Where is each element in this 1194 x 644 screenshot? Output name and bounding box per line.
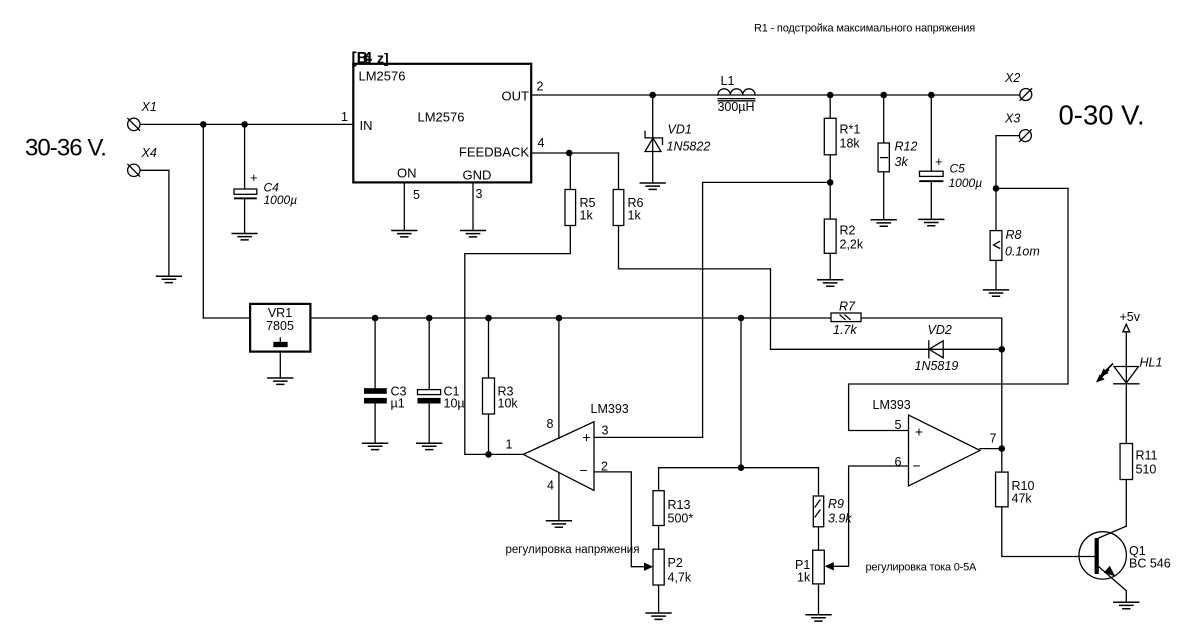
- resistor R13: [653, 491, 664, 526]
- wire comparator U1 pin 4 to ground: [558, 473, 560, 521]
- junction node 3: [649, 92, 656, 99]
- svg-text:P2: P2: [668, 556, 683, 570]
- wire R12 top: [883, 95, 885, 143]
- label LM2576 footprint tag [B4z]: [352, 50, 389, 67]
- svg-text:LM2576: LM2576: [418, 110, 465, 125]
- LED HL1: [1096, 364, 1139, 384]
- svg-text:LM2576: LM2576: [359, 69, 406, 84]
- svg-text:4,7k: 4,7k: [668, 571, 692, 585]
- capacitor C1: [418, 385, 465, 411]
- wire R13 bottom to P2 top: [658, 526, 660, 550]
- wire comparator U1 pin 2 to P2 wiper: [594, 472, 646, 567]
- svg-text:BC 546: BC 546: [1129, 557, 1171, 571]
- junction node 9: [372, 315, 379, 322]
- svg-text:47k: 47k: [1012, 491, 1033, 505]
- resistor R*1: [824, 118, 836, 155]
- ground C1: [417, 443, 442, 449]
- junction node 18: [999, 445, 1006, 452]
- resistor R6: [613, 190, 624, 226]
- wire R3 bottom: [488, 414, 490, 454]
- wire R12 bottom to ground: [883, 172, 885, 220]
- wire R8 bottom to ground: [995, 260, 997, 290]
- svg-text:4: 4: [538, 136, 545, 150]
- svg-text:+: +: [915, 424, 923, 440]
- wire LM2576 GND pin 3 to ground: [472, 182, 474, 230]
- ground X4: [157, 276, 182, 282]
- wire R5 top: [569, 153, 571, 190]
- svg-text:HL1: HL1: [1140, 356, 1163, 370]
- resistor R7: [831, 300, 861, 338]
- svg-text:0.1om: 0.1om: [1005, 245, 1040, 259]
- svg-text:R*1: R*1: [840, 123, 861, 137]
- terminal X2: [1020, 89, 1032, 101]
- svg-text:500*: 500*: [668, 512, 694, 526]
- power +5v arrow: [1123, 324, 1130, 332]
- junction node 1: [200, 121, 207, 128]
- junction node 17: [999, 346, 1006, 353]
- junction node 11: [485, 315, 492, 322]
- svg-text:2: 2: [601, 460, 608, 474]
- junction node 10: [426, 315, 433, 322]
- wire +5V bus down to R13 R9 rail: [740, 318, 742, 468]
- svg-text:IN: IN: [360, 118, 373, 133]
- svg-text:0-30 V.: 0-30 V.: [1059, 100, 1145, 131]
- junction node 8: [827, 179, 834, 186]
- wire P2 bottom to ground: [658, 585, 660, 613]
- wire C3 bottom to ground: [374, 404, 376, 444]
- label R11: [1136, 449, 1158, 477]
- label R9: [828, 497, 852, 526]
- label R3: [498, 385, 519, 411]
- svg-text:+: +: [582, 429, 590, 445]
- svg-text:X4: X4: [141, 146, 157, 160]
- label P2: [668, 556, 692, 585]
- label Q1: [1129, 544, 1171, 571]
- wire C3 top: [374, 318, 376, 388]
- svg-text:регулировка тока 0-5А: регулировка тока 0-5А: [866, 562, 978, 574]
- wire R9 top: [818, 468, 820, 496]
- label R*1: [840, 123, 861, 151]
- svg-text:R12: R12: [895, 140, 918, 154]
- svg-text:R13: R13: [668, 498, 691, 512]
- svg-text:1k: 1k: [797, 571, 811, 585]
- arrow P1 wiper: [825, 562, 834, 570]
- wire comparator U2 pin 5 from R8 node: [849, 188, 1068, 430]
- IC LM2576 U3 box: [353, 64, 531, 183]
- ground C5: [919, 219, 944, 225]
- wire LM2576 ON pin 5 to ground: [403, 182, 405, 230]
- svg-text:регулировка напряжения: регулировка напряжения: [506, 544, 640, 556]
- wire P1 bottom to ground: [818, 584, 820, 615]
- svg-text:R7: R7: [839, 300, 856, 314]
- svg-text:1N5819: 1N5819: [915, 359, 959, 373]
- svg-text:ON: ON: [397, 166, 417, 181]
- svg-text:е: е: [364, 51, 371, 66]
- wire C4 bottom to ground: [244, 199, 246, 233]
- svg-text:18k: 18k: [840, 137, 861, 151]
- wire VR1 tab to ground: [279, 352, 281, 378]
- svg-text:6: 6: [895, 455, 902, 469]
- inductor L1: [717, 74, 755, 114]
- wire +5v to R11 through HL1: [1125, 332, 1127, 444]
- capacitor C5: [919, 154, 982, 190]
- svg-text:+: +: [250, 170, 258, 185]
- svg-text:5: 5: [413, 188, 420, 202]
- wire R6 bottom to VD2 anode line: [619, 226, 771, 350]
- schottky diode VD1 1N5822: [645, 123, 710, 154]
- svg-text:R1 - подстройка максимального: R1 - подстройка максимального напряжения: [754, 23, 975, 35]
- svg-text:1k: 1k: [580, 209, 594, 223]
- junction node 2: [241, 121, 248, 128]
- ground P2: [646, 613, 671, 619]
- svg-text:−: −: [579, 462, 587, 478]
- wire rail over R13 and R9: [659, 467, 819, 469]
- svg-text:R9: R9: [828, 497, 844, 511]
- wire C1 top: [428, 318, 430, 390]
- svg-text:3k: 3k: [895, 155, 909, 169]
- svg-text:z]: z]: [377, 50, 389, 66]
- junction node 7: [566, 150, 573, 157]
- junction node 16: [993, 185, 1000, 192]
- svg-text:+5v: +5v: [1120, 310, 1141, 324]
- svg-text:−: −: [912, 458, 920, 474]
- junction node 15: [738, 464, 745, 471]
- svg-text:VD2: VD2: [928, 323, 952, 337]
- wire C5 top: [930, 95, 932, 171]
- svg-text:X2: X2: [1004, 71, 1020, 85]
- wire C4 top: [244, 124, 246, 189]
- wire R3 top: [488, 318, 490, 378]
- svg-text:3: 3: [476, 187, 483, 201]
- junction node 12: [556, 315, 563, 322]
- potentiometer P1: [813, 550, 825, 584]
- schottky diode VD2 1N5819: [915, 323, 959, 373]
- wire R2 bottom to ground: [829, 253, 831, 279]
- svg-text:OUT: OUT: [502, 89, 530, 104]
- svg-text:8: 8: [547, 417, 554, 431]
- svg-text:10µ: 10µ: [444, 397, 465, 411]
- junction node 14: [485, 451, 492, 458]
- label R10: [1012, 479, 1035, 505]
- svg-text:3.9k: 3.9k: [828, 512, 852, 526]
- potentiometer P2: [653, 549, 664, 585]
- svg-text:30-36 V.: 30-36 V.: [25, 135, 106, 162]
- label P1: [795, 558, 811, 585]
- junction node 4: [827, 92, 834, 99]
- svg-text:4: 4: [547, 479, 554, 493]
- wire VD2 line to output node: [771, 348, 1002, 350]
- ground C3: [363, 443, 388, 449]
- wire C5 bottom to ground: [930, 181, 932, 219]
- svg-text:10k: 10k: [498, 397, 519, 411]
- ground VR1: [268, 378, 293, 384]
- ground C4: [232, 234, 257, 240]
- wire Q1 emitter to ground: [1099, 567, 1127, 603]
- svg-text:C5: C5: [950, 162, 966, 176]
- wire VR1 output +5V bus to R7: [310, 317, 831, 319]
- svg-text:1N5822: 1N5822: [667, 140, 711, 154]
- terminal X3: [1019, 130, 1031, 142]
- wire VD2 node down to R10: [1001, 349, 1003, 472]
- svg-text:LM393: LM393: [873, 398, 911, 412]
- svg-text:1000µ: 1000µ: [264, 193, 298, 207]
- ground Q1 emitter: [1114, 602, 1139, 608]
- wire R*1 top: [829, 95, 831, 118]
- svg-text:7: 7: [990, 432, 997, 446]
- wire R10 bottom to Q1 base: [1002, 507, 1095, 557]
- junction node 13: [738, 315, 745, 322]
- svg-text:R11: R11: [1136, 449, 1158, 463]
- wire R5 bottom to node of R3 and comparator output pin 1: [465, 226, 571, 455]
- label R8: [1005, 228, 1040, 259]
- wire R13 top: [658, 468, 660, 491]
- resistor R8: [990, 231, 1002, 261]
- resistor R9: [813, 496, 823, 527]
- svg-text:3: 3: [602, 424, 609, 438]
- arrow P2 wiper: [644, 563, 653, 571]
- junction node 5: [880, 92, 887, 99]
- resistor R11: [1120, 444, 1133, 480]
- terminal X4: [128, 164, 140, 176]
- capacitor C3: [364, 385, 407, 411]
- wire FEEDBACK pin 4 to R5 R6: [531, 152, 618, 154]
- svg-text:LM393: LM393: [591, 402, 629, 416]
- wire R9 bottom to P1 top: [818, 527, 820, 550]
- terminal X1: [128, 118, 140, 130]
- svg-text:VR1: VR1: [268, 306, 292, 320]
- wire C1 bottom to ground: [428, 404, 430, 444]
- svg-text:5: 5: [895, 418, 902, 432]
- wire R*1 bottom to R2 top: [829, 155, 831, 219]
- svg-text:+: +: [935, 154, 943, 169]
- label R13: [668, 498, 694, 526]
- svg-text:FEEDBACK: FEEDBACK: [459, 145, 529, 160]
- wire input bus to VR1 IN: [203, 317, 250, 319]
- resistor R10: [996, 472, 1009, 507]
- svg-text:L1: L1: [721, 74, 735, 88]
- wire R6 top: [618, 153, 620, 190]
- resistor R5: [565, 190, 576, 226]
- wire comparator U2 output pin 7: [980, 448, 1002, 450]
- wire comparator U1 pin 8 supply: [558, 318, 560, 438]
- ground P1: [806, 615, 831, 621]
- resistor R3: [483, 378, 495, 414]
- label R2: [840, 224, 864, 252]
- wire X3 down to R8: [996, 136, 1020, 231]
- comparator U1 LM393 (mirrored, output left): [523, 422, 594, 491]
- voltage regulator VR1 7805: [250, 304, 310, 352]
- svg-text:1000µ: 1000µ: [949, 176, 983, 190]
- junction node 6: [928, 92, 935, 99]
- wire LM2576 OUT bus to X2: [531, 94, 1020, 96]
- svg-text:X3: X3: [1004, 112, 1020, 126]
- transistor Q1 BC546: [1079, 532, 1126, 579]
- capacitor C4: [234, 170, 297, 207]
- wire comparator U2 pin 6 to P1 wiper: [832, 466, 909, 566]
- ground R12: [871, 220, 896, 226]
- svg-text:1.7k: 1.7k: [833, 323, 857, 337]
- label R6: [628, 196, 644, 223]
- svg-text:2: 2: [537, 80, 544, 94]
- wire R7 to corner: [861, 318, 1002, 349]
- wire node to comparator U1 output pin 1: [489, 453, 524, 455]
- svg-text:2,2k: 2,2k: [840, 238, 864, 252]
- ground VD1: [640, 183, 665, 189]
- comparator U2 LM393: [909, 415, 981, 486]
- svg-text:1k: 1k: [628, 209, 642, 223]
- svg-text:X1: X1: [141, 100, 157, 114]
- ground LM2576 pin3: [461, 231, 486, 237]
- svg-text:1: 1: [341, 110, 348, 124]
- svg-text:1: 1: [506, 438, 513, 452]
- svg-text:R2: R2: [840, 224, 856, 238]
- resistor R2: [824, 219, 836, 253]
- svg-text:R8: R8: [1006, 228, 1022, 242]
- wire R8 node link: [996, 187, 1068, 189]
- resistor R12: [878, 143, 889, 172]
- ground R2: [818, 280, 843, 286]
- wire R*1 R2 junction to comparator U1 pin 3: [594, 182, 830, 437]
- svg-text:VD1: VD1: [668, 123, 692, 137]
- svg-text:300µH: 300µH: [717, 100, 754, 114]
- wire R11 to Q1 collector: [1125, 480, 1127, 527]
- wire Q1 collector diagonal: [1099, 526, 1127, 538]
- label R5: [580, 196, 596, 223]
- wire input bus down from X1 node: [202, 124, 204, 318]
- wire X4 to ground: [140, 170, 169, 276]
- wire VD1 to ground: [652, 95, 654, 183]
- ground U1 pin4: [547, 521, 572, 527]
- ground LM2576 pin5: [392, 231, 417, 237]
- svg-text:µ1: µ1: [391, 397, 405, 411]
- svg-text:GND: GND: [463, 168, 492, 183]
- svg-text:510: 510: [1136, 463, 1157, 477]
- ground R8: [984, 290, 1009, 296]
- label R12: [895, 140, 918, 170]
- svg-text:7805: 7805: [266, 319, 294, 333]
- wire X1 to LM2576 IN pin 1: [140, 123, 353, 125]
